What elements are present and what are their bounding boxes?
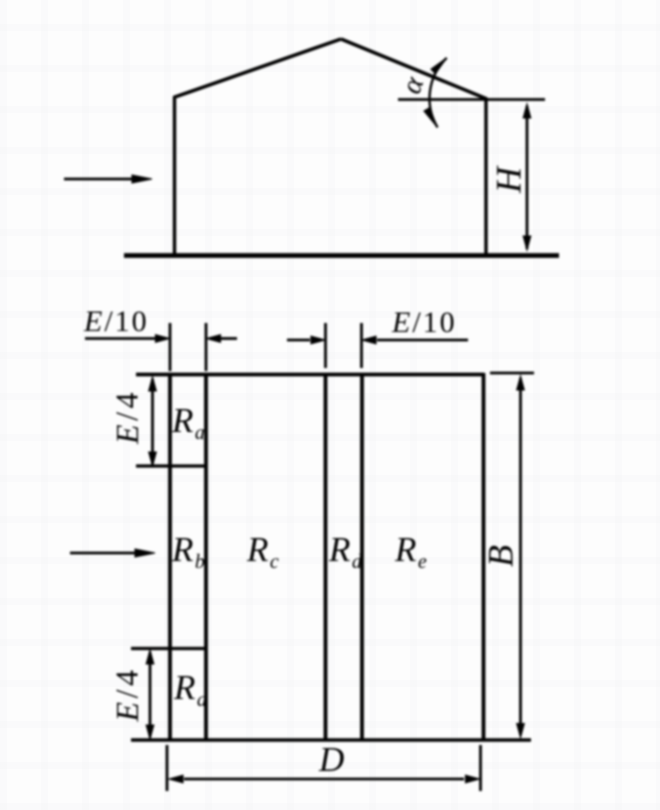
roof left slope bbox=[174, 39, 342, 98]
plan bottom edge bbox=[131, 738, 531, 742]
E/10 left dimension bbox=[85, 323, 237, 371]
svg-text:E/10: E/10 bbox=[391, 306, 457, 339]
eave horizontal reference line bbox=[398, 98, 545, 101]
svg-text:Rd: Rd bbox=[328, 530, 363, 573]
plan top edge bbox=[136, 373, 484, 377]
left wall bbox=[173, 97, 176, 256]
alpha arc top arrowhead bbox=[431, 58, 447, 74]
svg-text:Ra: Ra bbox=[173, 668, 207, 711]
Rd strip left line bbox=[324, 373, 328, 741]
plan left edge bbox=[168, 373, 172, 741]
svg-text:E/10: E/10 bbox=[83, 305, 149, 338]
E/10 right dimension bbox=[287, 323, 468, 368]
roof right slope bbox=[341, 39, 487, 99]
svg-text:α: α bbox=[395, 72, 431, 98]
svg-text:E/4: E/4 bbox=[109, 389, 145, 445]
inner vertical (edge strip) bbox=[204, 373, 208, 741]
wind arrow (plan) bbox=[70, 549, 155, 557]
E/4 bottom dimension bbox=[146, 650, 154, 739]
svg-text:Ra: Ra bbox=[171, 401, 205, 444]
H dimension line bbox=[523, 104, 531, 250]
angle alpha arc bbox=[430, 58, 447, 128]
svg-text:Rc: Rc bbox=[246, 530, 279, 573]
svg-text:Rb: Rb bbox=[171, 530, 205, 573]
svg-text:D: D bbox=[318, 740, 344, 779]
svg-text:B: B bbox=[480, 545, 520, 567]
wind arrow (elevation) bbox=[64, 175, 152, 183]
D dimension bbox=[167, 745, 481, 791]
right wall bbox=[484, 98, 487, 255]
inner horizontal (top Ra bottom) bbox=[136, 464, 207, 467]
B dimension bbox=[517, 376, 525, 738]
alpha arc bottom arrowhead bbox=[424, 108, 438, 128]
plan right edge bbox=[482, 373, 486, 741]
Rd strip right line bbox=[360, 373, 364, 741]
svg-text:H: H bbox=[488, 165, 528, 194]
E/4 top dimension bbox=[149, 377, 157, 466]
ground line bbox=[124, 253, 559, 258]
svg-text:E/4: E/4 bbox=[109, 667, 145, 723]
inner horizontal (bottom Ra top) bbox=[131, 647, 206, 650]
plan top-right extension bbox=[490, 372, 534, 375]
svg-text:Re: Re bbox=[394, 530, 427, 573]
